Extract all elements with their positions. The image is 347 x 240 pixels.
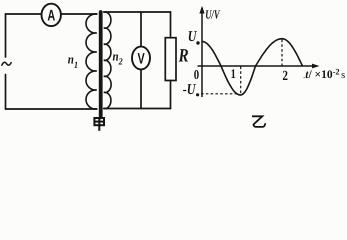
resistor R xyxy=(165,38,176,81)
dashed vertical at t=1 xyxy=(240,67,242,95)
transformer primary coil n1 xyxy=(86,14,97,109)
svg-text:2: 2 xyxy=(282,69,288,84)
svg-text:.t/ ×10-2s: .t/ ×10-2s xyxy=(303,67,345,82)
wire top left (source to ammeter) xyxy=(6,13,42,15)
wire bottom left circuit xyxy=(6,108,97,110)
wire secondary top xyxy=(104,11,171,13)
wire right vertical upper xyxy=(170,12,172,38)
AC source ~ xyxy=(2,62,11,65)
label jia (Chinese 'first') xyxy=(94,118,104,131)
wire left vertical lower segment xyxy=(5,75,7,110)
graph x-axis xyxy=(198,65,317,67)
svg-text:n2: n2 xyxy=(113,49,123,68)
svg-text:V: V xyxy=(137,51,144,68)
voltmeter V xyxy=(132,47,150,70)
svg-text:R: R xyxy=(178,46,189,67)
dashed horizontal at -U0 level xyxy=(201,93,240,95)
wire voltmeter branch upper xyxy=(140,12,142,47)
svg-text:A: A xyxy=(47,8,55,25)
graph y-axis xyxy=(201,8,203,97)
svg-text:-U: -U xyxy=(183,82,197,98)
transformer secondary coil n2 xyxy=(104,12,111,109)
wire left vertical upper segment xyxy=(5,14,7,57)
wire voltmeter branch lower xyxy=(140,69,142,108)
svg-text:n1: n1 xyxy=(68,51,78,71)
svg-text:U: U xyxy=(188,29,198,45)
wire top mid (ammeter to primary coil) xyxy=(61,13,97,15)
dashed vertical at t=2 xyxy=(281,40,283,66)
sine curve xyxy=(202,39,303,95)
svg-text:1: 1 xyxy=(231,66,236,81)
ammeter A xyxy=(42,4,61,26)
svg-text:U/V: U/V xyxy=(205,8,220,22)
svg-text:0: 0 xyxy=(194,67,200,82)
wire bottom secondary xyxy=(104,108,171,110)
wire right vertical lower xyxy=(170,81,172,109)
label yi (Chinese 'second') xyxy=(252,116,265,127)
transformer core xyxy=(99,12,103,117)
